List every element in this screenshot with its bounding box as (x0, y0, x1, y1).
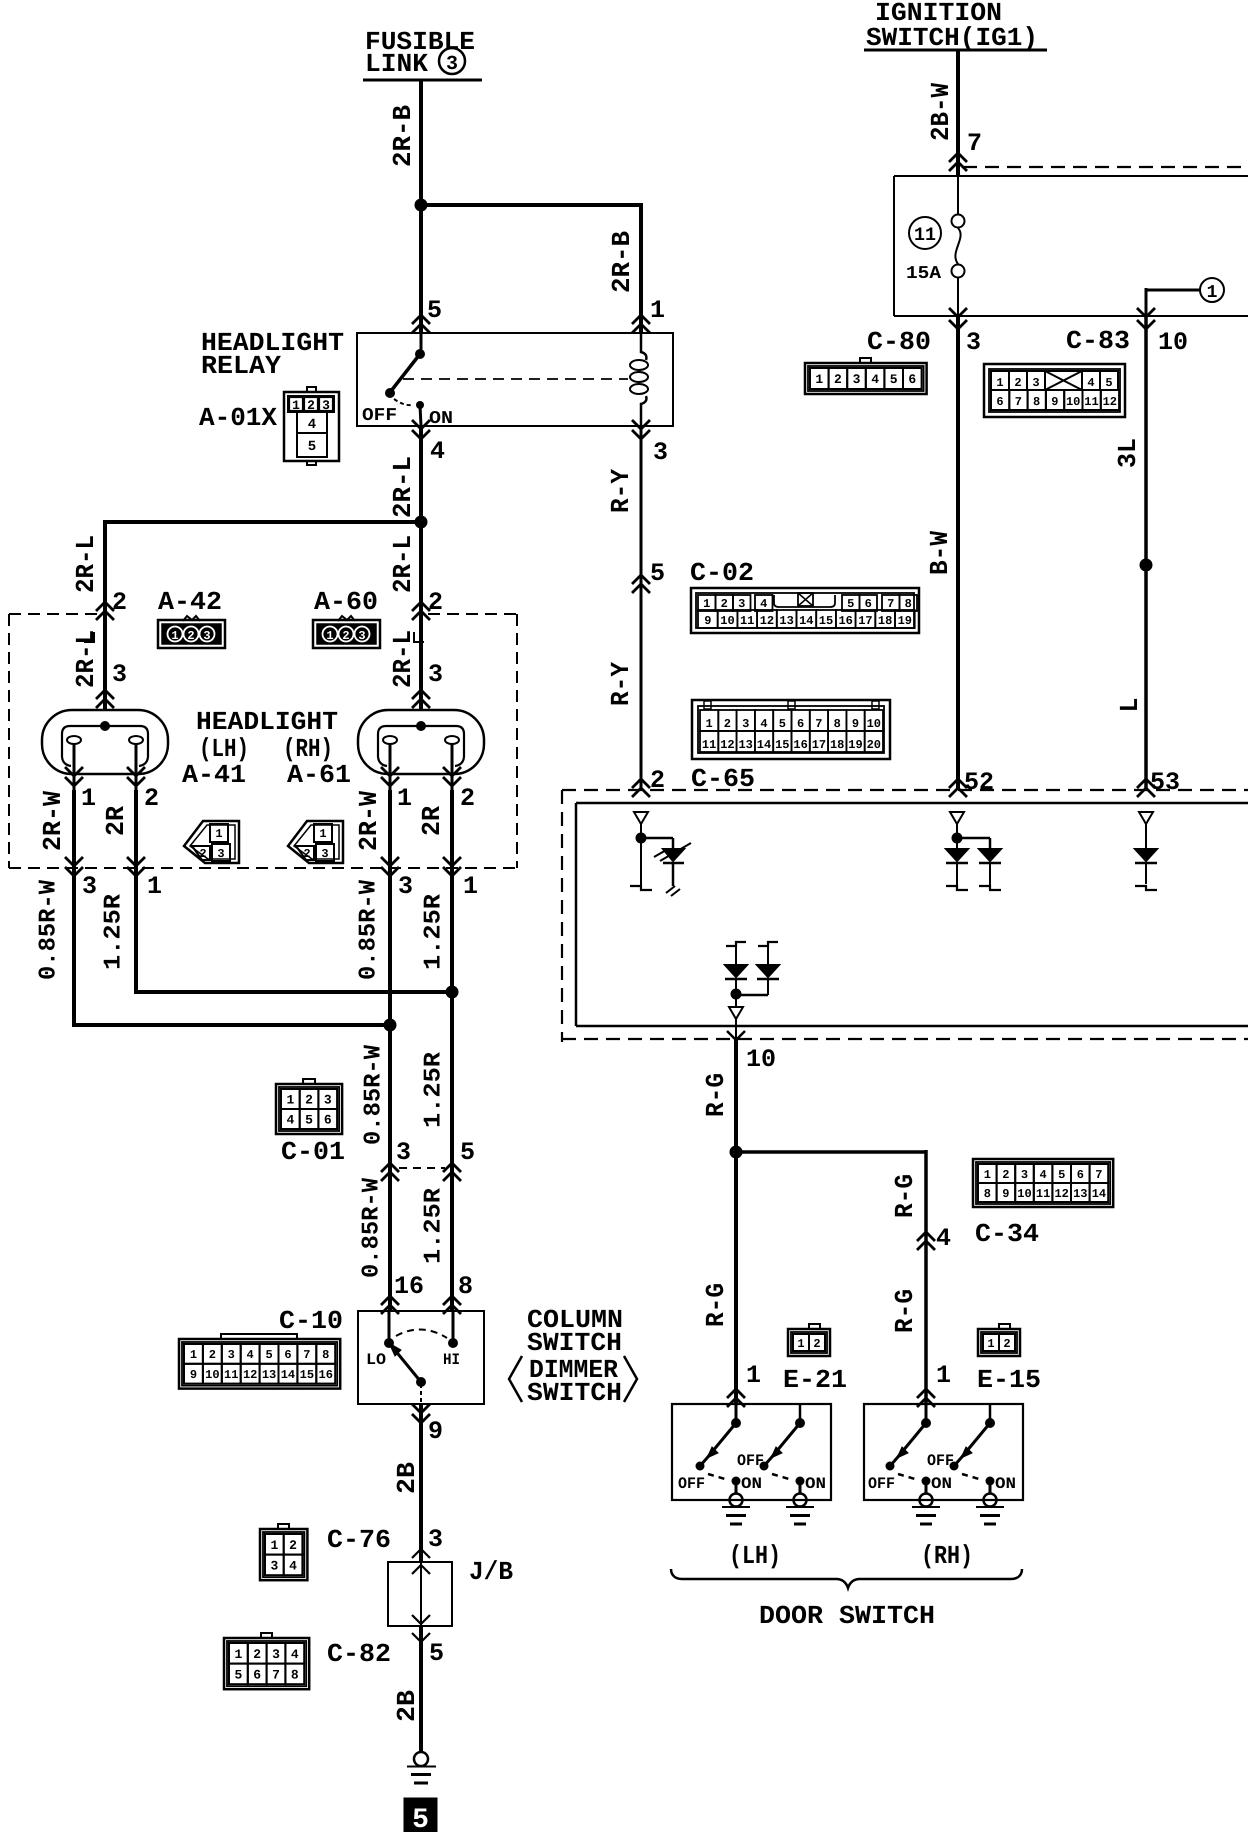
connector A-01X pin diagram (284, 387, 339, 465)
wire 0.85R-W down to dimmer switch (388, 868, 392, 1311)
svg-text:(RH): (RH) (921, 1541, 973, 1571)
wire 2B-W from ignition switch to fuse 11 (956, 50, 960, 176)
svg-text:2: 2 (834, 372, 842, 387)
svg-text:2B: 2B (392, 1690, 422, 1722)
svg-text:0.85R-W: 0.85R-W (361, 1044, 388, 1145)
svg-text:10: 10 (205, 1368, 219, 1382)
joint connector pin 5 chevrons on R-Y (632, 559, 665, 593)
svg-text:4: 4 (308, 417, 316, 433)
diode D5 output pair right (741, 942, 779, 995)
svg-text:1: 1 (234, 1647, 242, 1662)
svg-text:10: 10 (720, 614, 734, 628)
svg-text:5: 5 (1105, 376, 1112, 390)
svg-text:7: 7 (815, 717, 822, 731)
svg-text:1: 1 (987, 1337, 994, 1351)
connector C-82 pin diagram (224, 1633, 309, 1689)
svg-text:4: 4 (760, 717, 767, 731)
wire 2R-L continues to RH headlight (419, 522, 423, 710)
svg-text:3: 3 (112, 660, 127, 689)
svg-text:2: 2 (1002, 1168, 1009, 1182)
svg-text:ON: ON (931, 1475, 952, 1493)
svg-text:(LH): (LH) (729, 1541, 781, 1571)
svg-text:5: 5 (412, 1805, 429, 1832)
svg-text:2: 2 (112, 588, 127, 617)
svg-text:6: 6 (1077, 1168, 1084, 1182)
svg-text:52: 52 (964, 768, 994, 797)
svg-text:0.85R-W: 0.85R-W (356, 879, 383, 980)
dashed harness line at fuse box top (963, 166, 1248, 168)
svg-text:3: 3 (966, 328, 981, 357)
C-82 pin 5 and chevron (412, 1633, 444, 1668)
svg-text:1: 1 (215, 827, 222, 841)
power source label IGNITION SWITCH(IG1) (864, 0, 1047, 53)
svg-text:C-80: C-80 (867, 327, 931, 357)
svg-text:7: 7 (887, 597, 894, 611)
svg-text:OFF: OFF (868, 1475, 895, 1493)
connector A-61 pin diagram (pentagon) (288, 821, 343, 863)
brace grouping door switches (671, 1569, 1022, 1588)
svg-text:1: 1 (650, 296, 665, 325)
svg-text:1: 1 (81, 784, 96, 813)
svg-text:7: 7 (1015, 395, 1022, 409)
LH pin 3 with chevrons at bulb (96, 660, 127, 708)
svg-text:2B-W: 2B-W (926, 83, 956, 141)
node splice on wire L at (1146,565) (1140, 559, 1153, 572)
C-34 pin 4 chevrons on RH R-G wire (917, 1224, 951, 1253)
svg-text:2: 2 (721, 597, 728, 611)
svg-text:14: 14 (757, 738, 771, 752)
LH headlight bulb A-41 (42, 710, 168, 790)
svg-text:3: 3 (1032, 376, 1039, 390)
ETACS unit solid box (576, 803, 1248, 1026)
svg-text:4: 4 (291, 1647, 299, 1662)
svg-text:3: 3 (321, 847, 328, 861)
svg-text:2: 2 (289, 1538, 297, 1553)
wire from ETACS pin 10 exit (727, 1019, 776, 1074)
wire 2R-L branch to LH headlight (103, 520, 421, 710)
svg-text:3: 3 (324, 1093, 332, 1108)
svg-text:15: 15 (819, 614, 833, 628)
svg-text:3: 3 (396, 1138, 411, 1167)
connector C-65 pin diagram (692, 700, 890, 759)
svg-text:18: 18 (830, 738, 844, 752)
ground G1 body ground symbol (407, 1752, 436, 1783)
connector C-02 pin diagram (691, 588, 919, 633)
dimmer switch lever (389, 1343, 426, 1387)
svg-text:J/B: J/B (469, 1557, 513, 1587)
junction block J/B box (388, 1557, 513, 1626)
svg-text:1: 1 (703, 597, 710, 611)
svg-text:16: 16 (319, 1368, 333, 1382)
RH headlight bulb A-61 (358, 710, 484, 790)
svg-text:6: 6 (253, 1668, 261, 1683)
svg-text:9: 9 (704, 614, 711, 628)
svg-text:53: 53 (1150, 768, 1180, 797)
svg-text:1: 1 (326, 629, 333, 643)
svg-text:5: 5 (890, 372, 898, 387)
connector C-80 pin diagram (805, 358, 927, 394)
svg-text:4: 4 (936, 1224, 951, 1253)
svg-text:RELAY: RELAY (201, 351, 281, 381)
svg-text:8: 8 (291, 1668, 299, 1683)
svg-text:5: 5 (305, 1113, 313, 1128)
svg-text:2: 2 (199, 847, 206, 861)
dimmer switch LO contact (366, 1311, 394, 1369)
svg-text:3: 3 (322, 398, 330, 413)
svg-text:14: 14 (799, 614, 813, 628)
svg-text:6: 6 (284, 1348, 291, 1362)
svg-text:3: 3 (853, 372, 861, 387)
relay switch contact (pins 5-4) (385, 333, 425, 426)
svg-text:1: 1 (319, 827, 326, 841)
svg-text:DOOR SWITCH: DOOR SWITCH (759, 1601, 935, 1631)
svg-text:3: 3 (217, 847, 224, 861)
fuse 11 15A symbol (952, 176, 965, 316)
fuse box exit pin 3 arrows (949, 308, 981, 357)
ETACS pin 52 with chevrons (949, 768, 994, 797)
pin 9 exit chevrons of column switch (412, 1404, 443, 1446)
svg-text:11: 11 (740, 614, 754, 628)
ETACS input marker at pin 52 (950, 812, 964, 833)
ETACS output marker at pin 10 (729, 999, 743, 1019)
fuse box pin 7 with chevrons (949, 129, 982, 171)
svg-text:6: 6 (324, 1113, 332, 1128)
svg-text:3: 3 (270, 1559, 278, 1574)
svg-text:1: 1 (292, 398, 300, 413)
RH pin 2 with chevrons at A-60 (412, 588, 443, 620)
svg-text:R-G: R-G (890, 1289, 920, 1333)
svg-text:11: 11 (1036, 1187, 1050, 1201)
svg-text:6: 6 (797, 717, 804, 731)
svg-text:12: 12 (1103, 395, 1117, 409)
svg-text:1: 1 (984, 1168, 991, 1182)
svg-text:4: 4 (247, 1348, 254, 1362)
svg-text:1: 1 (270, 1538, 278, 1553)
svg-text:4: 4 (1039, 1168, 1046, 1182)
node internal junction pin 10 (731, 989, 742, 1000)
svg-text:17: 17 (812, 738, 826, 752)
dimmer switch output dashed link to pin 9 (420, 1384, 422, 1402)
svg-text:R-G: R-G (701, 1073, 731, 1117)
C-10 pins 16 and 8 with chevrons (381, 1272, 473, 1314)
svg-text:3: 3 (228, 1348, 235, 1362)
svg-text:6: 6 (908, 372, 916, 387)
svg-text:0.85R-W: 0.85R-W (36, 879, 63, 980)
svg-text:17: 17 (858, 614, 872, 628)
node junction low-beam wires at (452,992) (446, 986, 459, 999)
svg-text:9: 9 (852, 717, 859, 731)
svg-text:7: 7 (303, 1348, 310, 1362)
svg-text:8: 8 (1033, 395, 1040, 409)
connector C-10 pin diagram (179, 1334, 340, 1389)
svg-text:4: 4 (289, 1559, 297, 1574)
svg-text:14: 14 (281, 1368, 295, 1382)
svg-text:2: 2 (1003, 1337, 1010, 1351)
svg-text:16: 16 (793, 738, 807, 752)
RH bulb exit arrows and pins 1 2 (381, 767, 475, 813)
dimmer switch HI contact (443, 1311, 460, 1369)
svg-text:2: 2 (305, 1093, 313, 1108)
svg-text:5: 5 (847, 597, 854, 611)
ETACS input marker at pin 2 (634, 812, 648, 833)
svg-text:3: 3 (272, 1647, 280, 1662)
relay pin 3 number and exit arrows (632, 420, 668, 467)
connector C-76 pin diagram (260, 1524, 307, 1580)
svg-text:3: 3 (653, 438, 668, 467)
svg-text:15: 15 (775, 738, 789, 752)
svg-text:1: 1 (1207, 283, 1218, 303)
svg-text:2R-B: 2R-B (388, 105, 418, 167)
RH door switch pin 1 chevrons (917, 1361, 951, 1407)
svg-text:OFF: OFF (927, 1452, 954, 1470)
svg-text:C-83: C-83 (1066, 326, 1130, 356)
LH bulb exit arrows and pins 1 2 (65, 767, 159, 813)
svg-text:5: 5 (308, 439, 316, 455)
svg-text:2B: 2B (392, 1462, 422, 1494)
node internal junction pin 2 (636, 833, 647, 844)
svg-text:1: 1 (171, 629, 178, 643)
svg-text:13: 13 (262, 1368, 276, 1382)
svg-text:A-60: A-60 (314, 587, 378, 617)
svg-text:5: 5 (1058, 1168, 1065, 1182)
relay pin 1 number and connector chevrons (632, 296, 665, 333)
svg-text:2: 2 (813, 1337, 820, 1351)
C-76 pin 3 and chevron (412, 1525, 443, 1558)
circled node 1 feed into fuse box (1146, 278, 1224, 316)
svg-text:2R-W: 2R-W (354, 791, 384, 851)
svg-text:5: 5 (429, 1639, 444, 1668)
svg-text:ON: ON (995, 1475, 1016, 1493)
harness dashed box around headlights (9, 614, 517, 868)
svg-text:2R: 2R (417, 806, 447, 836)
node junction 2R-L at (421,522) (415, 516, 428, 529)
svg-text:14: 14 (1092, 1187, 1106, 1201)
svg-text:3: 3 (428, 1525, 443, 1554)
svg-text:3: 3 (428, 660, 443, 689)
svg-text:2R-W: 2R-W (38, 791, 68, 851)
wire R-G from ETACS pin 10 down to LH door switch (734, 1039, 738, 1404)
connector C-01 pin diagram (276, 1079, 342, 1134)
node junction R-G at (736,1152) (730, 1146, 743, 1159)
LH door switch box with contacts and grounds (672, 1404, 831, 1524)
svg-text:10: 10 (1066, 395, 1080, 409)
svg-text:A-61: A-61 (287, 760, 351, 790)
svg-text:3L: 3L (1113, 438, 1143, 468)
svg-text:9: 9 (1051, 395, 1058, 409)
svg-text:2: 2 (342, 629, 349, 643)
svg-text:11: 11 (224, 1368, 238, 1382)
RH door switch box with contacts and grounds (864, 1404, 1023, 1524)
svg-text:2: 2 (428, 588, 443, 617)
svg-text:1: 1 (190, 1348, 197, 1362)
wire 0.85R-W LH joining RH high-beam wire (72, 868, 390, 1027)
svg-text:9: 9 (190, 1368, 197, 1382)
ETACS unit dashed harness box (562, 790, 1248, 1042)
svg-text:8: 8 (322, 1348, 329, 1362)
svg-text:15A: 15A (906, 264, 941, 284)
svg-text:OFF: OFF (678, 1475, 705, 1493)
node junction of 2R-B feed at (421,205) (415, 199, 428, 212)
svg-text:2: 2 (187, 629, 194, 643)
wire 2R-B from fusible link down to headlight relay pin 5 (419, 80, 423, 333)
svg-text:8: 8 (905, 597, 912, 611)
svg-text:1: 1 (936, 1361, 951, 1390)
wire 2B from dimmer switch to C-76 (419, 1404, 423, 1562)
svg-text:3: 3 (398, 872, 413, 901)
relay coil (pins 1-3) (630, 333, 648, 426)
svg-text:6: 6 (996, 395, 1003, 409)
svg-text:7: 7 (272, 1668, 280, 1683)
svg-text:5: 5 (779, 717, 786, 731)
svg-text:1: 1 (147, 872, 162, 901)
svg-text:OFF: OFF (737, 1452, 764, 1470)
svg-text:2R: 2R (101, 806, 131, 836)
svg-text:R-G: R-G (890, 1174, 920, 1218)
svg-text:2: 2 (303, 847, 310, 861)
svg-text:12: 12 (760, 614, 774, 628)
svg-text:4: 4 (1087, 376, 1094, 390)
svg-text:5: 5 (265, 1348, 272, 1362)
diode D4 output pair left (725, 942, 747, 990)
LH pin 2 with chevrons at A-42 (96, 588, 127, 620)
svg-text:HEADLIGHT: HEADLIGHT (196, 707, 338, 737)
svg-text:1: 1 (286, 1093, 294, 1108)
connector E-15 pin diagram (978, 1324, 1020, 1356)
connector C-34 pin diagram (973, 1159, 1113, 1207)
svg-text:15: 15 (300, 1368, 314, 1382)
svg-text:B-W: B-W (925, 531, 955, 575)
connector A-41 pin diagram (pentagon) (184, 821, 239, 863)
diode D2 at pin 52 (957, 838, 1001, 890)
svg-text:3: 3 (203, 629, 210, 643)
svg-text:20: 20 (867, 738, 881, 752)
svg-text:SWITCH: SWITCH (527, 1328, 622, 1358)
svg-text:3: 3 (1021, 1168, 1028, 1182)
wire R-G branch to RH door switch (736, 1150, 926, 1404)
connector C-83 pin diagram (984, 364, 1125, 417)
svg-text:10: 10 (746, 1045, 776, 1074)
svg-text:10: 10 (867, 717, 881, 731)
svg-text:19: 19 (848, 738, 862, 752)
svg-text:1: 1 (815, 372, 823, 387)
LH headlight wires down through harness box (74, 790, 136, 868)
svg-text:11: 11 (914, 224, 936, 246)
svg-text:13: 13 (1073, 1187, 1087, 1201)
svg-text:A-41: A-41 (182, 760, 246, 790)
svg-text:9: 9 (428, 1417, 443, 1446)
connector E-21 pin diagram (788, 1324, 830, 1356)
svg-text:C-01: C-01 (281, 1137, 345, 1167)
svg-text:8: 8 (984, 1187, 991, 1201)
wire through junction block with arrows (412, 1562, 430, 1626)
svg-text:13: 13 (779, 614, 793, 628)
svg-text:2R-B: 2R-B (607, 231, 637, 293)
svg-text:2: 2 (307, 398, 315, 413)
svg-text:2R-L: 2R-L (388, 535, 418, 593)
RH pin 3 with chevrons at bulb (412, 660, 443, 708)
relay actuating dashed link (403, 378, 628, 380)
svg-text:LO: LO (366, 1351, 386, 1369)
ETACS pin 2 with chevrons (632, 766, 665, 797)
C-01 pins 3 and 5 with chevrons and dashed mate line (381, 1138, 475, 1181)
svg-text:3: 3 (446, 53, 458, 76)
svg-text:6: 6 (865, 597, 872, 611)
svg-text:13: 13 (738, 738, 752, 752)
svg-text:1.25R: 1.25R (421, 1187, 448, 1264)
svg-text:3: 3 (358, 629, 365, 643)
wire 2B from J/B to ground (419, 1626, 423, 1752)
svg-text:4: 4 (430, 437, 445, 466)
svg-text:5: 5 (460, 1138, 475, 1167)
svg-text:A-01X: A-01X (199, 403, 277, 433)
LH door switch pin 1 chevrons (727, 1361, 761, 1407)
svg-text:2: 2 (460, 784, 475, 813)
node junction high-beam wires at (390,1025) (384, 1019, 397, 1032)
diode D1 at pin 52 (946, 843, 968, 890)
svg-text:1.25R: 1.25R (421, 1051, 448, 1128)
svg-text:3: 3 (738, 597, 745, 611)
svg-text:8: 8 (458, 1272, 473, 1301)
svg-text:12: 12 (243, 1368, 257, 1382)
page reference box 5 (404, 1798, 437, 1832)
fuse box exit pin 10 arrows (1137, 308, 1188, 357)
svg-text:5: 5 (234, 1668, 242, 1683)
svg-text:16: 16 (838, 614, 852, 628)
svg-text:12: 12 (720, 738, 734, 752)
wire 3L/L from fuse box to ETACS pin 53 (1144, 316, 1148, 790)
svg-text:E-15: E-15 (977, 1365, 1041, 1395)
svg-text:5: 5 (650, 559, 665, 588)
svg-text:ON: ON (429, 409, 453, 429)
svg-text:R-G: R-G (701, 1283, 731, 1327)
ETACS pin 53 with chevrons (1137, 768, 1180, 797)
connector A-42 pin diagram (158, 616, 225, 648)
svg-text:7: 7 (1095, 1168, 1102, 1182)
svg-text:2R-L: 2R-L (71, 535, 101, 593)
svg-text:7: 7 (967, 129, 982, 158)
dimmer switch dashed travel arc (396, 1329, 447, 1338)
svg-text:16: 16 (394, 1272, 424, 1301)
svg-text:4: 4 (760, 597, 767, 611)
connector A-60 pin diagram (313, 616, 380, 648)
wire 2R-B branch to relay coil pin 1 (419, 203, 643, 333)
relay pin 5 number and connector chevrons (412, 296, 442, 333)
svg-text:11: 11 (702, 738, 716, 752)
junction block fuse box outline (894, 176, 1248, 316)
harness exit chevrons and pins 3 1 LH (65, 857, 162, 901)
svg-text:1.25R: 1.25R (101, 893, 128, 970)
relay name text HEADLIGHT RELAY (201, 328, 344, 381)
svg-text:2: 2 (724, 717, 731, 731)
svg-text:1: 1 (746, 1361, 761, 1390)
headlight caption text (182, 707, 351, 790)
svg-text:1.25R: 1.25R (421, 893, 448, 970)
svg-text:1: 1 (397, 784, 412, 813)
svg-text:E-21: E-21 (783, 1365, 847, 1395)
zener diode surge absorber at pin 2 (641, 838, 691, 896)
svg-text:ON: ON (741, 1475, 762, 1493)
svg-text:0.85R-W: 0.85R-W (359, 1177, 386, 1278)
relay pin 4 number and exit arrows (412, 420, 445, 466)
svg-text:R-Y: R-Y (606, 469, 636, 513)
svg-text:2: 2 (1014, 376, 1021, 390)
svg-text:4: 4 (286, 1113, 294, 1128)
svg-text:A-42: A-42 (158, 587, 222, 617)
wire label 2R-B (right) (607, 231, 637, 293)
column switch caption (509, 1305, 637, 1408)
svg-text:OFF: OFF (362, 406, 397, 426)
harness exit chevrons and pins 3 1 RH (381, 857, 478, 901)
